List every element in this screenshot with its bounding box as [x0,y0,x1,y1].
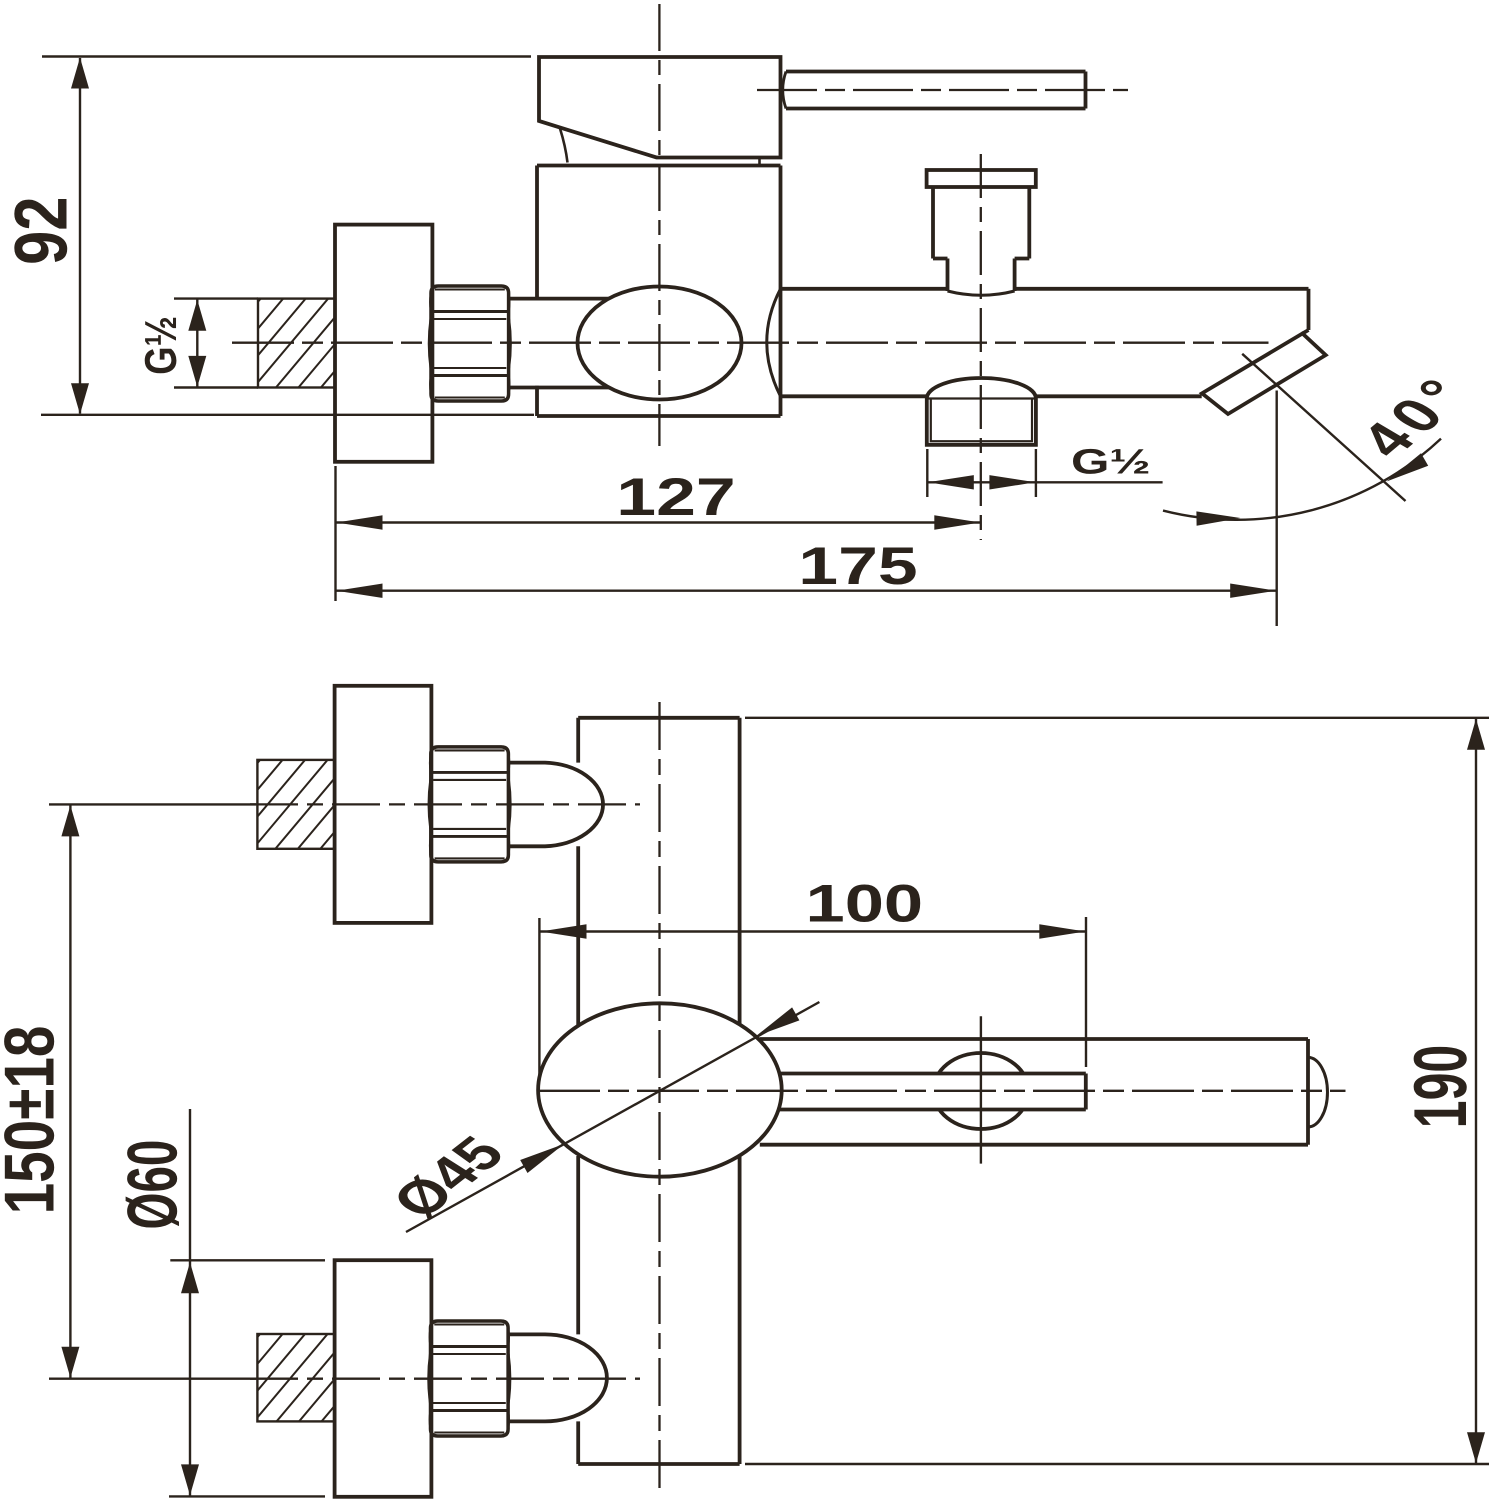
dia45 leader line [406,1002,819,1232]
40deg reference line [1242,354,1405,501]
diverter neck bottom arc [948,291,1015,295]
flange top inlet (plan) [335,686,432,923]
lever bar centerline [757,89,1128,91]
127 dimension line [336,521,981,523]
svg-text:92: 92 [0,196,83,264]
spout-body fillet arc [767,289,781,397]
G1/2 dim line [196,300,198,387]
check valve inner double line [927,399,1036,442]
svg-text:100: 100 [805,874,923,933]
svg-text:150±18: 150±18 [0,1026,69,1215]
spout tip arc [1308,1057,1327,1127]
lever bar [786,72,1086,109]
hex nut bottom inlet (plan) [429,1321,510,1436]
swing arc 40deg [1163,439,1441,520]
handle boss ellipse [578,287,742,400]
inlet connector pipe [509,297,641,301]
92 dim top extension line [42,55,531,57]
slab vertical centerline [658,702,660,1496]
dia60 top extension [170,1259,325,1261]
150 dimension line [69,806,71,1378]
hex nut (upper view) [429,286,510,401]
check valve body [927,399,1036,445]
handle cap wedge outline [539,57,781,158]
svg-text:175: 175 [798,537,917,596]
body vertical centerline [658,4,660,446]
175 dimension line [336,590,1277,592]
handle boss ellipse (plan view) [538,1003,782,1176]
upper view horizontal centerline [232,342,1269,344]
check valve dome arc [927,378,1036,399]
wall flange (upper view) [335,225,432,462]
svg-text:G½: G½ [1071,442,1151,481]
diverter knob body and neck [933,187,1029,291]
flange bottom inlet (plan) [335,1260,432,1497]
valve body [537,166,781,417]
diverter vertical centerline [980,154,982,540]
127/175 left extension line [334,466,336,601]
150 dim bottom extension [49,1377,256,1379]
knob ellipse vertical line [980,1016,982,1163]
lever swing arc at cap left [560,129,568,163]
svg-text:Ø60: Ø60 [114,1140,193,1230]
arm centerline [538,1090,1346,1092]
dia60 dim line [189,1261,191,1495]
swing arc arrow at 40deg line [1387,453,1429,481]
G1/2 valve left extension [926,449,928,497]
lever bar left end arc [783,72,786,109]
vertical reference line at nozzle [1275,391,1277,627]
100 dimension line [540,930,1086,932]
swing arc arrow right [1196,511,1240,525]
dia45 arrow lower [520,1144,564,1173]
hex nut top inlet (plan) [429,747,510,862]
svg-text:G½: G½ [136,316,186,375]
100 dim right extension [1085,917,1087,1067]
G1/2 valve dim + leader line [927,481,1162,483]
nozzle parallelogram 40deg [1202,334,1326,415]
dome cap top inlet [509,763,603,847]
spout pipe [781,287,948,291]
150 dim top extension [49,803,256,805]
G1/2 valve right extension [1035,449,1037,497]
dome cap bottom inlet [509,1334,607,1421]
190 top extension [745,717,1489,719]
cap bottom step tick [758,158,761,166]
92 dim bottom extension line [41,414,534,416]
top inlet centerline [250,803,640,805]
92 dimension line [79,58,81,414]
190 bottom extension [745,1463,1489,1465]
dia45 arrow upper [756,1007,800,1036]
bottom inlet centerline [250,1378,640,1380]
lever bar (plan view) [780,1074,1086,1110]
spout arm (plan view) [760,1039,1308,1145]
dia60 dim line upper part [189,1109,191,1260]
190 dimension line [1475,719,1477,1463]
dia60 bottom extension [169,1495,325,1497]
100 dim left extension [538,918,540,1077]
diverter knob cap [927,170,1036,187]
svg-text:190: 190 [1399,1045,1483,1128]
body slab (plan view) [576,718,580,1464]
svg-text:127: 127 [616,468,735,527]
diverter knob ellipse (plan) [933,1053,1028,1129]
G1/2 bottom extension [174,386,258,388]
G1/2 top extension [174,297,258,299]
